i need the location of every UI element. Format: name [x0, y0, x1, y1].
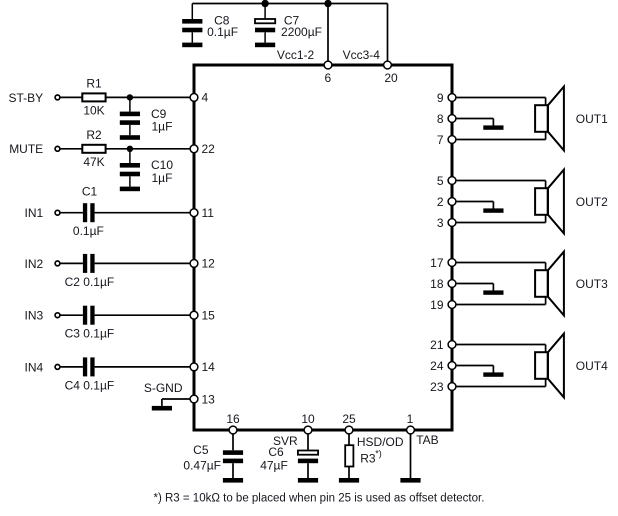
- svg-text:20: 20: [384, 71, 398, 85]
- ground OUT2 speaker return: [483, 208, 503, 212]
- pin 10: [301, 412, 315, 434]
- wire: [60, 262, 83, 264]
- svg-text:2200µF: 2200µF: [281, 25, 322, 39]
- pin 3: [437, 216, 456, 230]
- svg-text:*) R3 = 10kΩ to be placed when: *) R3 = 10kΩ to be placed when pin 25 is…: [154, 492, 485, 504]
- svg-text:2: 2: [437, 195, 444, 209]
- svg-text:C6: C6: [268, 445, 284, 459]
- wire pin20 to supply bus: [387, 4, 389, 64]
- wire: [95, 366, 191, 368]
- svg-text:10K: 10K: [83, 104, 104, 118]
- wire: [456, 202, 494, 209]
- wire: [60, 314, 83, 316]
- wire: [456, 263, 546, 272]
- node S-GND label: [144, 381, 183, 395]
- svg-text:C4 0.1µF: C4 0.1µF: [65, 378, 115, 392]
- svg-text:10: 10: [301, 412, 315, 426]
- speaker OUT1: [535, 87, 564, 151]
- svg-text:3: 3: [437, 216, 444, 230]
- wire: [95, 262, 191, 264]
- svg-text:14: 14: [202, 360, 216, 374]
- svg-text:47µF: 47µF: [260, 459, 288, 473]
- svg-text:S-GND: S-GND: [144, 381, 183, 395]
- pin 2: [437, 195, 456, 209]
- node IN4 input terminal: [25, 360, 60, 374]
- wire: [348, 434, 350, 446]
- ground OUT3 speaker return: [483, 290, 503, 294]
- ground OUT1 speaker return: [483, 125, 503, 129]
- node C7 junction: [261, 0, 268, 7]
- svg-text:*): *): [375, 448, 382, 458]
- svg-text:C3 0.1µF: C3 0.1µF: [65, 327, 115, 341]
- capacitor C8: [182, 4, 238, 43]
- ground TAB: [400, 478, 420, 483]
- wire: [456, 98, 546, 107]
- svg-text:25: 25: [342, 412, 356, 426]
- wire: [60, 212, 83, 214]
- wire: [456, 345, 546, 354]
- svg-text:4: 4: [202, 91, 209, 105]
- wire: [456, 181, 546, 190]
- speaker OUT2: [535, 170, 564, 234]
- node SVR label: [273, 434, 298, 448]
- wire: [410, 434, 412, 478]
- svg-text:0.1µF: 0.1µF: [73, 224, 104, 238]
- wire: [348, 467, 350, 479]
- node Vcc1-2: [277, 48, 315, 62]
- node OUT3 label: [576, 277, 608, 291]
- svg-text:Vcc3-4: Vcc3-4: [343, 48, 381, 62]
- op-amp U1 quad power amplifier IC body: [194, 65, 452, 430]
- wire: [95, 212, 191, 214]
- node OUT1 label: [576, 112, 608, 126]
- svg-text:17: 17: [430, 256, 444, 270]
- svg-text:OUT2: OUT2: [576, 195, 608, 209]
- wire pin6 to supply bus: [327, 4, 329, 66]
- node IN1 input terminal: [25, 206, 60, 220]
- svg-text:15: 15: [202, 309, 216, 323]
- svg-text:0.1µF: 0.1µF: [207, 25, 238, 39]
- ground C8: [182, 43, 202, 48]
- svg-text:8: 8: [437, 112, 444, 126]
- wire: [232, 434, 234, 451]
- ground R3: [339, 478, 359, 483]
- svg-text:7: 7: [437, 133, 444, 147]
- svg-text:22: 22: [202, 142, 216, 156]
- svg-text:C1: C1: [82, 185, 98, 199]
- wire: [60, 148, 83, 150]
- pin 16: [226, 412, 240, 434]
- wire: [106, 148, 191, 150]
- svg-text:13: 13: [202, 392, 216, 406]
- ground C9: [120, 135, 140, 140]
- pin 18: [430, 277, 456, 291]
- capacitor C9: [120, 97, 173, 135]
- svg-text:18: 18: [430, 277, 444, 291]
- svg-text:11: 11: [202, 206, 215, 220]
- node pin6 junction: [324, 0, 331, 7]
- svg-text:OUT3: OUT3: [576, 277, 608, 291]
- wire: [106, 96, 191, 98]
- ground C5: [223, 478, 243, 483]
- pin 11: [190, 206, 214, 220]
- svg-text:6: 6: [324, 71, 331, 85]
- wire: [456, 214, 546, 223]
- svg-text:1: 1: [407, 412, 414, 426]
- pin 9: [437, 91, 456, 105]
- speaker OUT4: [535, 334, 564, 398]
- svg-text:1µF: 1µF: [152, 171, 173, 185]
- pin 24: [430, 359, 456, 373]
- wire: [60, 96, 83, 98]
- node HSD/OD label: [357, 435, 404, 449]
- svg-text:OUT4: OUT4: [576, 359, 608, 373]
- pin 25: [342, 412, 356, 434]
- svg-text:HSD/OD: HSD/OD: [357, 435, 404, 449]
- node ST-BY input terminal: [9, 91, 60, 105]
- svg-text:IN1: IN1: [25, 206, 44, 220]
- pin 13: [190, 392, 215, 406]
- capacitor C2: [65, 254, 115, 289]
- wire: [60, 366, 83, 368]
- svg-text:IN2: IN2: [25, 257, 44, 271]
- node TAB label: [416, 433, 438, 447]
- node OUT2 label: [576, 195, 608, 209]
- pin 7: [437, 133, 456, 147]
- pin 14: [190, 360, 215, 374]
- svg-text:12: 12: [202, 257, 216, 271]
- svg-text:1µF: 1µF: [152, 120, 173, 134]
- speaker OUT3: [535, 252, 564, 316]
- capacitor C10: [120, 149, 174, 187]
- svg-text:ST-BY: ST-BY: [9, 91, 44, 105]
- node IN2 input terminal: [25, 257, 60, 271]
- ground C10: [120, 187, 140, 192]
- wire: [307, 434, 309, 451]
- svg-text:IN3: IN3: [25, 309, 44, 323]
- svg-text:5: 5: [437, 174, 444, 188]
- capacitor C6: [260, 445, 318, 478]
- pin 21: [430, 338, 456, 352]
- pin 20: [384, 61, 398, 85]
- svg-text:C5: C5: [193, 443, 209, 457]
- svg-text:23: 23: [430, 380, 444, 394]
- pin 12: [190, 257, 215, 271]
- svg-text:Vcc1-2: Vcc1-2: [277, 48, 315, 62]
- pin 4: [190, 91, 208, 105]
- resistor R1: [82, 77, 105, 118]
- node OUT4 label: [576, 359, 608, 373]
- wire: [162, 398, 191, 400]
- pin 22: [190, 142, 215, 156]
- svg-text:R3: R3: [360, 451, 376, 465]
- ground C7: [255, 43, 275, 48]
- svg-text:C2 0.1µF: C2 0.1µF: [65, 275, 115, 289]
- pin 15: [190, 309, 215, 323]
- pin 1: [407, 412, 415, 434]
- pin 17: [430, 256, 456, 270]
- capacitor C7: [255, 4, 322, 43]
- node IN3 input terminal: [25, 309, 60, 323]
- resistor R2: [82, 128, 105, 169]
- wire: [161, 399, 163, 406]
- node MUTE input terminal: [9, 142, 60, 156]
- svg-text:R2: R2: [86, 128, 102, 142]
- svg-text:TAB: TAB: [416, 433, 438, 447]
- ground OUT4 speaker return: [483, 372, 503, 376]
- resistor R3: [345, 445, 382, 466]
- svg-text:19: 19: [430, 298, 444, 312]
- node junction R1/C9: [127, 94, 133, 100]
- capacitor C3: [65, 306, 115, 341]
- wire top supply bus: [192, 3, 387, 5]
- pin 5: [437, 174, 456, 188]
- ground C6: [298, 478, 318, 483]
- pin 8: [437, 112, 456, 126]
- svg-text:MUTE: MUTE: [9, 142, 43, 156]
- svg-text:IN4: IN4: [25, 360, 44, 374]
- wire: [456, 366, 494, 373]
- svg-text:R1: R1: [86, 77, 102, 91]
- node footnote R3 usage: [154, 492, 485, 504]
- svg-text:0.47µF: 0.47µF: [183, 458, 221, 472]
- node Vcc3-4: [343, 48, 381, 62]
- wire: [456, 378, 546, 387]
- capacitor C5: [183, 443, 243, 478]
- capacitor C4: [65, 357, 115, 392]
- svg-text:47K: 47K: [83, 155, 104, 169]
- svg-text:16: 16: [226, 412, 240, 426]
- svg-text:OUT1: OUT1: [576, 112, 608, 126]
- svg-text:21: 21: [430, 338, 444, 352]
- capacitor C1: [73, 185, 104, 238]
- pin 6: [324, 61, 332, 85]
- wire: [456, 284, 494, 291]
- node junction R2/C10: [127, 146, 133, 152]
- pin 23: [430, 380, 456, 394]
- svg-text:9: 9: [437, 91, 444, 105]
- wire: [456, 119, 494, 126]
- ground S-GND: [152, 406, 172, 411]
- pin 19: [430, 298, 456, 312]
- wire: [456, 131, 546, 140]
- wire: [456, 296, 546, 305]
- wire: [95, 314, 191, 316]
- svg-text:24: 24: [430, 359, 444, 373]
